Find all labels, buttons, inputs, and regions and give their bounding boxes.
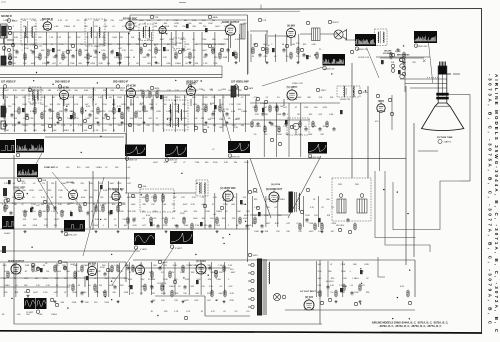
video IF row drop wire (233, 95, 235, 132)
svg-text:22K: 22K (118, 197, 122, 199)
svg-text:(V) VERT OSC: (V) VERT OSC (220, 188, 236, 190)
bottom mid drop wire (140, 262, 142, 295)
svg-text:1.2K: 1.2K (31, 20, 36, 22)
tube ref circle (116, 85, 120, 89)
svg-text:10K: 10K (112, 118, 116, 120)
junction dot 14 (407, 213, 408, 214)
svg-text:8.2K: 8.2K (138, 118, 143, 120)
junction dot 10 (111, 281, 112, 282)
svg-text:1K: 1K (33, 125, 36, 127)
svg-text:.02: .02 (90, 211, 94, 213)
svg-text:1K: 1K (185, 63, 188, 65)
svg-text:4.7K: 4.7K (58, 20, 63, 22)
svg-text:47: 47 (212, 204, 215, 206)
tube ref circle 6AT8 (244, 86, 247, 89)
video IF row drop wire (133, 95, 135, 132)
svg-text:2.2K: 2.2K (43, 44, 48, 46)
junction dot 37 (227, 31, 228, 32)
svg-text:68: 68 (164, 104, 167, 106)
bus rail B+ main horizontal (0, 158, 406, 160)
circled ref N49 (306, 188, 309, 191)
sound row drop wire (75, 32, 77, 66)
svg-text:10K: 10K (50, 104, 54, 106)
svg-text:470K: 470K (121, 104, 126, 106)
svg-text:2.2K: 2.2K (103, 130, 108, 132)
junction dot 51 (27, 193, 28, 194)
svg-text:2.2K: 2.2K (186, 311, 191, 313)
sound row drop wire (161, 32, 163, 66)
svg-text:100K: 100K (94, 20, 99, 22)
ground G25 (260, 230, 263, 233)
svg-text:270K: 270K (309, 223, 314, 225)
border right line (481, 9, 483, 333)
svg-text:39K: 39K (120, 285, 124, 287)
component drop wire (92, 99, 94, 106)
svg-text:11 VERT: 11 VERT (26, 312, 34, 314)
tube V10 (377, 102, 385, 112)
audio row drop wire (286, 34, 288, 62)
ground G4 (118, 61, 121, 64)
svg-text:2 VIDEO 4V: 2 VIDEO 4V (167, 160, 178, 162)
svg-text:680: 680 (212, 39, 216, 41)
svg-text:470K: 470K (221, 89, 226, 91)
video IF row drop wire (162, 95, 164, 132)
svg-text:.1: .1 (12, 26, 15, 28)
resistor R18 (266, 47, 268, 55)
svg-text:.047: .047 (286, 223, 291, 225)
svg-text:10K: 10K (80, 111, 84, 113)
svg-text:2.2K: 2.2K (163, 57, 168, 59)
sync row drop wire (46, 181, 48, 228)
svg-text:56K: 56K (191, 286, 195, 288)
svg-text:470K: 470K (57, 90, 62, 92)
capacitor C26 (282, 112, 285, 116)
bottom right drop wire (327, 261, 329, 297)
vert row drop wire (127, 193, 129, 229)
svg-text:1 MEG: 1 MEG (233, 119, 240, 121)
electrolytic capacitor C910 (214, 105, 217, 109)
electrolytic capacitor C919 (318, 218, 321, 222)
horiz row drop wire (277, 196, 279, 227)
circled ref N38 (43, 200, 46, 203)
junction dot 2 (11, 298, 12, 299)
capacitor C19 (88, 113, 91, 117)
wire audio output cathode (230, 36, 232, 48)
callout ref for sync (228, 154, 231, 157)
secondary winding of T6 (353, 86, 356, 97)
svg-text:5%: 5% (77, 20, 80, 22)
bus wire bottom left row (0, 261, 126, 263)
circled ref N17 (402, 66, 405, 69)
svg-text:270K: 270K (122, 219, 127, 221)
audio stub wire (250, 30, 268, 32)
sync row drop wire (118, 181, 120, 228)
resistor R25 (18, 107, 20, 115)
horiz row drop wire (251, 196, 253, 227)
circled ref N6 (178, 50, 181, 53)
detector coil L15 (169, 118, 172, 127)
plate rail video IF (0, 87, 125, 89)
grid rail sound (0, 43, 130, 45)
sync row drop wire (88, 181, 90, 228)
svg-text:820: 820 (331, 278, 335, 280)
svg-text:22K: 22K (99, 183, 103, 185)
deflection yoke band 1 (436, 93, 448, 96)
tube V4 (225, 23, 235, 35)
HV socket ref 2 (360, 194, 364, 198)
ground G27 (53, 300, 56, 303)
sync row drop wire (97, 181, 99, 228)
svg-text:1K: 1K (33, 211, 36, 213)
svg-text:6.8K: 6.8K (54, 26, 59, 28)
primary winding of T6 (343, 86, 346, 97)
audio row drop wire (264, 34, 266, 62)
svg-text:.1: .1 (128, 63, 131, 65)
svg-text:4AU6: 4AU6 (213, 16, 219, 19)
resistor R91 (251, 121, 253, 128)
svg-text:5%: 5% (59, 197, 62, 199)
svg-text:.0047: .0047 (309, 231, 315, 233)
svg-text:150K: 150K (5, 26, 10, 28)
svg-text:39K: 39K (71, 183, 75, 185)
pointer diagonal to flyback right (288, 156, 321, 218)
svg-text:1 MEG: 1 MEG (5, 44, 12, 46)
svg-text:.02: .02 (192, 57, 196, 59)
svg-text:2.2K: 2.2K (292, 126, 297, 128)
callout ref for out (170, 245, 173, 248)
callout leader AGC (32, 153, 42, 172)
callout ref for det (125, 157, 128, 160)
svg-text:1 MEG: 1 MEG (4, 285, 11, 287)
video IF row drop wire (102, 95, 104, 132)
resistor R50 (95, 205, 97, 213)
svg-text:1.2K: 1.2K (283, 126, 288, 128)
tube ref circle 5T8 (150, 15, 153, 18)
svg-text:120: 120 (109, 125, 113, 127)
svg-text:8.2K: 8.2K (147, 20, 152, 22)
vert row drop wire (236, 193, 238, 229)
circled ref N30 (264, 100, 267, 103)
svg-text:820: 820 (77, 167, 81, 169)
junction dot 33 (81, 152, 82, 153)
electrolytic capacitor C94 (272, 48, 275, 52)
svg-text:10K: 10K (146, 125, 150, 127)
horiz row drop wire (303, 196, 305, 227)
capacitor C1 (15, 50, 18, 54)
svg-text:820: 820 (120, 90, 124, 92)
junction dot 43 (157, 315, 158, 316)
svg-text:2.2K: 2.2K (237, 104, 242, 106)
HV rectifier socket 2 (357, 199, 367, 213)
svg-text:.005: .005 (153, 265, 158, 267)
resistor R11 (155, 47, 157, 55)
bottom left drop wire (56, 263, 58, 297)
svg-text:.01: .01 (112, 26, 116, 28)
svg-text:.02: .02 (77, 285, 81, 287)
svg-text:1.2K: 1.2K (52, 125, 57, 127)
vert osc transformer T7 (196, 180, 208, 196)
svg-text:.01: .01 (219, 286, 223, 288)
CRT ref circle (438, 140, 442, 144)
ground G12 (56, 121, 59, 124)
svg-text:8.2K: 8.2K (119, 271, 124, 273)
svg-text:47: 47 (295, 107, 298, 109)
electrolytic capacitor C98 (118, 108, 121, 112)
svg-text:3 VERT: 3 VERT (175, 248, 183, 250)
svg-text:.047: .047 (331, 231, 336, 233)
svg-text:680: 680 (145, 111, 149, 113)
svg-text:(V) 4CB6: (V) 4CB6 (126, 84, 136, 87)
pointer diagonal to flyback left (250, 158, 271, 218)
capacitor C56 (318, 127, 321, 131)
junction dot 34 (175, 100, 176, 101)
capacitor C14 (396, 48, 399, 52)
tube V13 (112, 190, 120, 200)
capacitor C7 (146, 53, 149, 57)
svg-text:100K: 100K (264, 215, 269, 217)
ground rail sound (0, 65, 222, 67)
svg-text:.01: .01 (128, 272, 132, 274)
top rail wire (130, 14, 248, 16)
video IF row drop wire (152, 95, 154, 132)
dotted leader to CRT (427, 77, 438, 79)
svg-text:330: 330 (48, 190, 52, 192)
svg-text:10K: 10K (15, 292, 19, 294)
svg-text:1B3: 1B3 (355, 184, 360, 186)
IF coil L12 (105, 88, 108, 99)
svg-text:47: 47 (183, 162, 186, 164)
svg-text:10K: 10K (33, 219, 37, 221)
svg-text:47: 47 (95, 104, 98, 106)
svg-text:1 MEG: 1 MEG (51, 314, 58, 316)
svg-text:4.7K: 4.7K (310, 207, 315, 209)
svg-text:3.3K: 3.3K (55, 278, 60, 280)
bottom mid drop wire (150, 262, 152, 295)
focus control box (287, 118, 309, 135)
svg-text:330: 330 (265, 114, 269, 116)
junction dot 58 (245, 204, 246, 205)
core line of T6 (345, 88, 347, 95)
svg-text:68: 68 (228, 118, 231, 120)
svg-text:.047: .047 (142, 225, 147, 227)
4.5MC trap transformer (375, 29, 388, 46)
svg-text:40-450V: 40-450V (326, 281, 334, 283)
resistor R96 (326, 121, 328, 128)
svg-text:330: 330 (107, 63, 111, 65)
bottom left drop wire (108, 263, 110, 297)
svg-text:22K: 22K (172, 204, 176, 206)
junction dot 36 (183, 277, 184, 278)
svg-text:39K: 39K (66, 271, 70, 273)
trap rail (376, 56, 430, 58)
sound row drop wire (67, 32, 69, 66)
svg-text:39K: 39K (307, 97, 311, 99)
resistor R33 (121, 112, 123, 120)
svg-text:56K: 56K (173, 197, 177, 199)
svg-text:39K: 39K (95, 118, 99, 120)
svg-text:470: 470 (375, 121, 379, 123)
svg-text:10K: 10K (89, 271, 93, 273)
ground rail video IF (0, 123, 250, 125)
component drop wire (219, 99, 221, 106)
svg-text:SYNC SEP: SYNC SEP (44, 167, 56, 169)
resistor R72 (132, 265, 134, 273)
svg-text:270K: 270K (195, 162, 200, 164)
svg-text:4.7K: 4.7K (49, 118, 54, 120)
sound row drop wire (3, 32, 5, 66)
circled ref N58 (328, 298, 331, 301)
svg-text:15K: 15K (110, 20, 114, 22)
ground G8 (265, 61, 268, 64)
video IF row drop wire (72, 95, 74, 132)
electrolytic capacitor C90 (52, 48, 55, 52)
svg-text:100K: 100K (61, 183, 66, 185)
circled ref N36 (390, 112, 393, 115)
svg-text:22K: 22K (174, 300, 178, 302)
svg-text:1.2K: 1.2K (330, 285, 335, 287)
resistor R38 (219, 105, 221, 113)
svg-text:.0047: .0047 (265, 223, 271, 225)
svg-text:680: 680 (353, 264, 357, 266)
junction dot 46 (392, 318, 393, 319)
svg-text:.047: .047 (52, 63, 57, 65)
svg-text:150K: 150K (244, 162, 249, 164)
svg-text:120: 120 (84, 20, 88, 22)
svg-text:56K: 56K (115, 167, 119, 169)
svg-text:15K: 15K (4, 63, 8, 65)
svg-text:680: 680 (174, 279, 178, 281)
svg-text:2.2K: 2.2K (4, 183, 9, 185)
svg-text:1 MEG: 1 MEG (83, 265, 90, 267)
circled ref N20 (58, 117, 61, 120)
transformer tap (251, 288, 254, 291)
svg-text:.02: .02 (135, 26, 139, 28)
svg-text:150K: 150K (93, 225, 98, 227)
resistor R79 (94, 284, 96, 292)
svg-text:1 MEG: 1 MEG (169, 286, 176, 288)
svg-text:3.3K: 3.3K (44, 57, 49, 59)
svg-text:5%: 5% (67, 118, 70, 120)
svg-text:470K: 470K (224, 39, 229, 41)
junction dot 57 (365, 90, 366, 91)
arrow mark control (423, 60, 426, 63)
junction dot 3 (360, 268, 361, 269)
circled ref N7 (208, 44, 211, 47)
tube ref circle 4BZ6 (28, 88, 31, 91)
resistor R13 (189, 52, 191, 60)
tube ref circle (234, 85, 238, 89)
svg-text:6.8K: 6.8K (206, 211, 211, 213)
wire to CRT cathode (410, 87, 438, 89)
tube ref circle 4BZ6 (150, 86, 153, 89)
circled ref N50 (31, 263, 34, 266)
transformer tap (251, 305, 254, 308)
sound row drop wire (182, 32, 184, 66)
svg-text:8.2K: 8.2K (274, 107, 279, 109)
svg-text:1ST VIDEO IF: 1ST VIDEO IF (1, 82, 16, 84)
resistor R56 (183, 217, 185, 225)
svg-text:120: 120 (99, 285, 103, 287)
circled ref N27 (203, 129, 206, 132)
svg-text:5%: 5% (286, 56, 289, 58)
svg-text:3.3K: 3.3K (235, 39, 240, 41)
svg-text:.005: .005 (33, 26, 38, 28)
svg-text:8.2K: 8.2K (164, 162, 169, 164)
resistor R6 (79, 49, 81, 57)
svg-text:820: 820 (254, 199, 258, 201)
svg-text:150K: 150K (201, 109, 206, 111)
svg-text:3.3K: 3.3K (39, 190, 44, 192)
circled part near photo (26, 289, 29, 292)
circled ref N18 (402, 72, 405, 75)
resistor R23 (403, 52, 405, 60)
svg-text:.0047: .0047 (109, 183, 115, 185)
svg-text:47: 47 (114, 219, 117, 221)
resistor R24 (4, 107, 6, 115)
resistor R21 (316, 52, 318, 60)
junction dot 12 (222, 237, 223, 238)
junction dot 66 (409, 318, 410, 319)
svg-text:2.2K: 2.2K (21, 197, 26, 199)
svg-text:.005: .005 (212, 111, 217, 113)
svg-text:39K: 39K (30, 104, 34, 106)
svg-text:.01: .01 (12, 183, 16, 185)
capacitor C5 (94, 50, 97, 54)
svg-text:9 SYNC 20V: 9 SYNC 20V (66, 235, 77, 237)
video IF row drop wire (222, 95, 224, 132)
video IF row drop wire (82, 95, 84, 132)
svg-text:.0047: .0047 (218, 293, 224, 295)
capacitor C22 (150, 106, 153, 110)
svg-text:56K: 56K (38, 37, 42, 39)
svg-text:330: 330 (201, 118, 205, 120)
circled ref N24 (48, 124, 51, 127)
resistor R87 (335, 290, 337, 298)
svg-text:270K: 270K (137, 111, 142, 113)
component drop wire (255, 99, 257, 106)
vertical wire x392 (391, 95, 393, 130)
circled ref N59 (354, 302, 357, 305)
svg-text:100K: 100K (277, 134, 282, 136)
svg-text:6CU6: 6CU6 (253, 192, 259, 194)
svg-text:120: 120 (75, 118, 79, 120)
svg-text:68: 68 (226, 109, 229, 111)
svg-text:10K: 10K (12, 63, 16, 65)
svg-text:.005: .005 (243, 23, 248, 25)
svg-text:100K: 100K (22, 104, 27, 106)
core line of T5 (172, 102, 174, 128)
svg-text:5 AUDIO 2V: 5 AUDIO 2V (324, 68, 335, 71)
svg-text:1.2K: 1.2K (246, 211, 251, 213)
svg-text:5%: 5% (254, 134, 257, 136)
resistor R55 (165, 217, 167, 225)
junction dot 30 (403, 45, 404, 46)
electrolytic capacitor C930 (381, 60, 384, 64)
svg-text:39K: 39K (234, 57, 238, 59)
svg-text:15K: 15K (100, 197, 104, 199)
detector coil L16 (177, 118, 180, 127)
svg-text:3.3K: 3.3K (318, 271, 323, 273)
resistor R49 (79, 205, 81, 213)
svg-text:1K: 1K (45, 106, 48, 108)
resistor R2 (24, 53, 26, 61)
resistor R42 (149, 91, 151, 99)
callout ref for b (16, 153, 19, 156)
video detector transformer T5 (163, 100, 188, 130)
svg-text:1.2K: 1.2K (51, 211, 56, 213)
svg-text:2.2K: 2.2K (57, 37, 62, 39)
svg-text:100K: 100K (165, 26, 170, 28)
